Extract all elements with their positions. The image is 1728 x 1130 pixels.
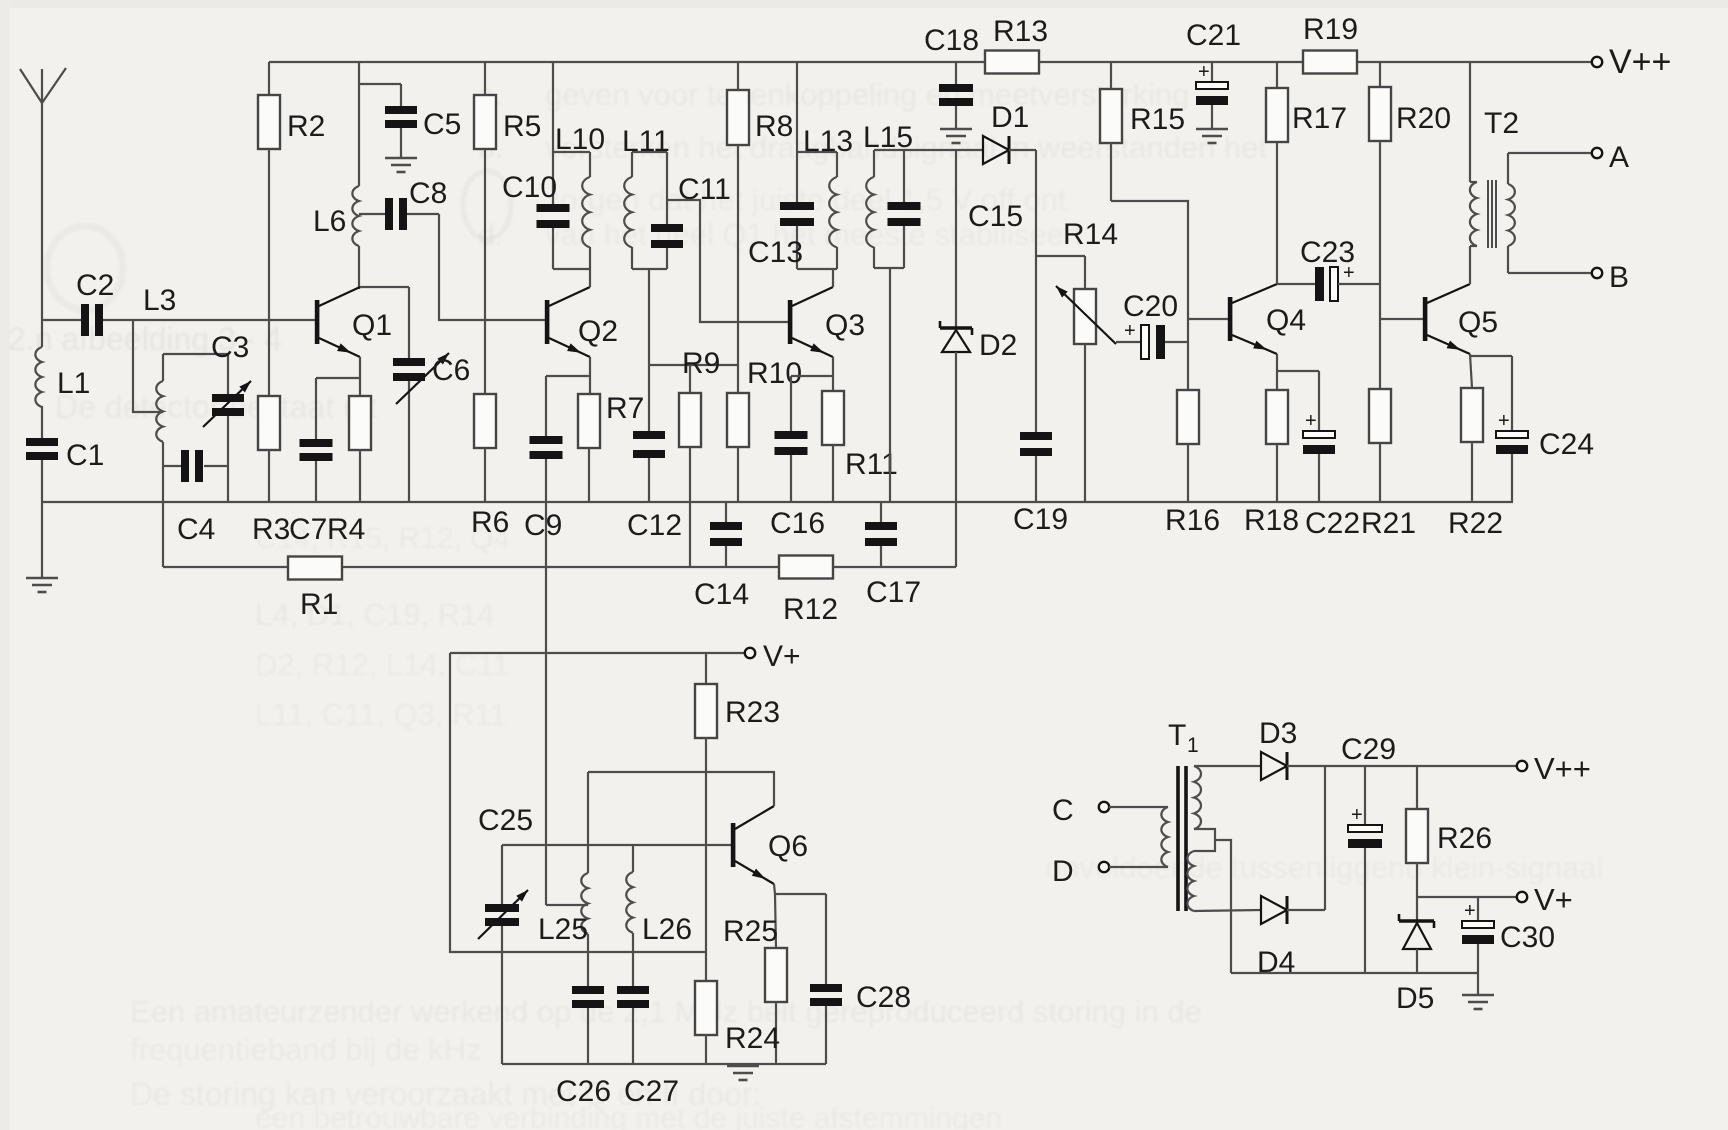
capacitor C14 xyxy=(694,502,749,611)
wire C11 tap to Q3 base xyxy=(667,200,789,322)
resistor R20 xyxy=(1369,62,1451,281)
transistor Q3 xyxy=(788,287,865,357)
transistor Q4 xyxy=(1228,284,1306,354)
wire V+ line xyxy=(450,652,745,654)
capacitor C7 xyxy=(289,378,333,546)
capacitor C18 xyxy=(924,24,979,129)
ground antenna xyxy=(26,578,58,592)
capacitor C13 tank xyxy=(748,62,837,269)
capacitor C29 xyxy=(1341,733,1396,973)
svg-text:C28: C28 xyxy=(856,981,911,1014)
inductor L4 xyxy=(156,354,163,567)
svg-text:R10: R10 xyxy=(747,357,802,390)
svg-text:+: + xyxy=(1464,900,1476,922)
svg-text:D3: D3 xyxy=(1259,717,1297,750)
svg-text:R15: R15 xyxy=(1130,103,1185,136)
transformer T2 secondary xyxy=(1508,153,1515,273)
wire Q5 emitter node xyxy=(1470,354,1512,388)
svg-text:C14: C14 xyxy=(694,578,749,611)
ground C18 xyxy=(940,129,972,143)
svg-text:C22: C22 xyxy=(1305,507,1360,540)
svg-text:L25: L25 xyxy=(538,913,588,946)
node terminal C xyxy=(1052,794,1109,827)
inductor L10 xyxy=(555,123,605,269)
wire antenna to C2 xyxy=(42,319,81,321)
svg-text:L13: L13 xyxy=(803,125,853,158)
svg-text:D5: D5 xyxy=(1396,982,1434,1015)
capacitor C6 variable xyxy=(393,287,470,502)
svg-text:C30: C30 xyxy=(1500,921,1555,954)
svg-text:R14: R14 xyxy=(1063,218,1118,251)
wire L15 bottom drop xyxy=(889,268,891,502)
capacitor C8 xyxy=(359,177,447,230)
wire Q2 emitter node xyxy=(546,357,590,394)
svg-text:Q3: Q3 xyxy=(825,309,865,342)
wire Q2 collector xyxy=(589,269,591,287)
transformer T2 primary xyxy=(1470,62,1519,246)
capacitor C17 xyxy=(865,502,921,609)
svg-text:R22: R22 xyxy=(1448,507,1503,540)
svg-text:R16: R16 xyxy=(1165,504,1220,537)
svg-text:T: T xyxy=(1168,719,1186,752)
svg-text:L11, C11, Q3, R11: L11, C11, Q3, R11 xyxy=(255,697,507,732)
wire D4 return xyxy=(1287,766,1325,910)
transformer T1 secondary upper xyxy=(1194,766,1261,829)
capacitor C4 xyxy=(163,450,228,546)
wire Q1 emitter node xyxy=(316,357,360,396)
svg-text:R26: R26 xyxy=(1437,822,1492,855)
capacitor C10 tank xyxy=(502,62,590,269)
wire D1 anode net xyxy=(904,149,983,151)
wire C lead xyxy=(1109,806,1168,808)
resistor R5 xyxy=(474,62,541,394)
ground C21 xyxy=(1196,129,1228,143)
capacitor C24 xyxy=(1496,356,1594,502)
svg-text:R3: R3 xyxy=(252,513,290,546)
wire T2 to A xyxy=(1508,152,1591,154)
wire T1 center tap xyxy=(1194,829,1231,973)
capacitor C11 xyxy=(651,152,731,269)
wire Q4 collector net xyxy=(1277,283,1315,285)
wire tap branch xyxy=(133,320,163,412)
capacitor C15 xyxy=(888,150,1024,268)
capacitor C1 xyxy=(26,438,104,578)
svg-text:R20: R20 xyxy=(1396,102,1451,135)
svg-text:R21: R21 xyxy=(1361,507,1416,540)
svg-text:R9: R9 xyxy=(682,347,720,380)
resistor R17 xyxy=(1266,62,1347,284)
inductor L1 xyxy=(35,320,42,438)
zener diode D2 xyxy=(940,150,1017,567)
node L1 label xyxy=(57,367,90,400)
wire L4 top to C3 xyxy=(163,353,228,355)
svg-text:R23: R23 xyxy=(725,696,780,729)
svg-text:L3: L3 xyxy=(143,284,176,317)
svg-text:R19: R19 xyxy=(1303,13,1358,46)
diode D3 xyxy=(1259,717,1297,780)
svg-text:C2: C2 xyxy=(76,269,114,302)
svg-text:C10: C10 xyxy=(502,171,557,204)
svg-text:Q1: Q1 xyxy=(352,309,392,342)
wire R14 top net xyxy=(1036,256,1085,289)
capacitor C28 xyxy=(810,894,911,1064)
resistor R2 xyxy=(258,62,325,396)
transistor Q1 xyxy=(315,287,392,357)
inductor L25 xyxy=(538,873,588,986)
svg-text:C1: C1 xyxy=(66,439,104,472)
inductor L15 xyxy=(863,121,913,268)
resistor R21 xyxy=(1361,389,1416,540)
svg-text:R5: R5 xyxy=(503,110,541,143)
wire tank bottom node xyxy=(649,269,738,431)
svg-text:C6: C6 xyxy=(432,354,470,387)
ground C30 xyxy=(1462,995,1494,1009)
capacitor C3 variable xyxy=(203,331,251,502)
svg-text:geven voor tegenkoppeling en m: geven voor tegenkoppeling en meetverster… xyxy=(545,77,1190,112)
wire R20 to Q5 base xyxy=(1380,281,1423,389)
svg-text:R17: R17 xyxy=(1292,102,1347,135)
svg-text:L26: L26 xyxy=(642,913,692,946)
wire Q6 emitter node xyxy=(774,884,826,948)
resistor R3 xyxy=(252,396,290,546)
wire Q5 collector to T2 xyxy=(1469,246,1471,284)
svg-text:R7: R7 xyxy=(606,392,644,425)
wire T2 to B xyxy=(1508,272,1591,274)
wire Q3 emitter node xyxy=(791,357,833,391)
svg-text:D1: D1 xyxy=(991,101,1029,134)
resistor R23 xyxy=(695,653,780,981)
wire R15 to base node xyxy=(1111,201,1188,390)
resistor R7 xyxy=(578,392,644,502)
capacitor C23 xyxy=(1300,236,1380,301)
resistor R12 xyxy=(779,556,838,627)
wire bottom ground rail xyxy=(42,501,1513,503)
svg-text:Een amateurzender werkend op d: Een amateurzender werkend op de 2,1 MHz … xyxy=(130,994,1202,1029)
svg-text:Q2: Q2 xyxy=(578,315,618,348)
transformer T1 primary xyxy=(1161,719,1198,867)
svg-text:D: D xyxy=(1052,855,1074,888)
zener diode D5 xyxy=(1396,914,1434,1015)
resistor R18 xyxy=(1244,390,1299,537)
capacitor C27 xyxy=(617,986,679,1108)
capacitor C30 xyxy=(1462,897,1555,995)
inductor L6 xyxy=(313,186,359,289)
svg-text:V++: V++ xyxy=(1534,751,1591,786)
resistor R19 xyxy=(1303,13,1358,74)
svg-text:L6: L6 xyxy=(313,205,346,238)
capacitor C12 xyxy=(627,431,682,542)
svg-text:Q5: Q5 xyxy=(1458,306,1498,339)
svg-text:L1: L1 xyxy=(57,367,90,400)
svg-text:+: + xyxy=(1198,61,1210,83)
wire Q1 collector xyxy=(360,286,409,288)
resistor R8 xyxy=(727,62,793,393)
inductor L26 xyxy=(626,845,692,986)
capacitor C19 xyxy=(1013,432,1068,536)
svg-text:C19: C19 xyxy=(1013,503,1068,536)
resistor R15 xyxy=(1100,62,1185,201)
svg-text:R8: R8 xyxy=(755,110,793,143)
svg-text:C9: C9 xyxy=(524,509,562,542)
resistor R1 xyxy=(288,557,342,622)
svg-text:V++: V++ xyxy=(1609,43,1671,81)
svg-text:Q6: Q6 xyxy=(768,830,808,863)
transistor Q6 xyxy=(731,806,808,884)
capacitor C22 xyxy=(1303,371,1360,540)
svg-text:frequentieband bij de kHz: frequentieband bij de kHz xyxy=(130,1032,482,1067)
wire L3 net xyxy=(103,284,315,320)
svg-text:C4: C4 xyxy=(177,513,215,546)
resistor R10 xyxy=(727,357,802,502)
resistor R14 variable xyxy=(1056,218,1118,502)
resistor R4 xyxy=(327,396,371,546)
capacitor C25 variable xyxy=(478,804,533,1064)
inductor L11 xyxy=(622,125,670,269)
svg-text:R25: R25 xyxy=(723,915,778,948)
svg-text:C27: C27 xyxy=(624,1075,679,1108)
svg-text:C16: C16 xyxy=(770,507,825,540)
node V+ terminal right xyxy=(1517,882,1573,917)
svg-text:V+: V+ xyxy=(763,640,801,673)
wire Q4 base xyxy=(1188,318,1228,320)
svg-text:1: 1 xyxy=(1187,734,1199,757)
node terminal D xyxy=(1052,855,1109,888)
wire Q6 collector loop xyxy=(588,772,774,873)
wire Q6 collector xyxy=(774,772,775,806)
svg-text:C12: C12 xyxy=(627,509,682,542)
wire Q3 collector xyxy=(832,269,834,287)
resistor R25 xyxy=(723,915,787,1064)
resistor R9 xyxy=(679,347,720,567)
wire L6 feed xyxy=(359,62,401,186)
svg-text:B: B xyxy=(1609,261,1629,294)
diode D1 xyxy=(983,101,1029,164)
inductor L13 xyxy=(803,125,853,269)
transistor Q2 xyxy=(545,287,618,357)
svg-text:R2: R2 xyxy=(287,110,325,143)
wire power supply bus xyxy=(1231,972,1478,974)
resistor R22 xyxy=(1448,388,1503,540)
svg-text:R13: R13 xyxy=(993,15,1048,48)
svg-text:C: C xyxy=(1052,794,1074,827)
svg-text:L10: L10 xyxy=(555,123,605,156)
ground oscillator xyxy=(727,1064,759,1080)
svg-text:C18: C18 xyxy=(924,24,979,57)
svg-text:R1: R1 xyxy=(300,588,338,621)
capacitor C20 xyxy=(1116,290,1188,359)
svg-text:R6: R6 xyxy=(471,506,509,539)
svg-text:Q4: Q4 xyxy=(1266,304,1306,337)
transformer T1 secondary lower xyxy=(1187,851,1261,911)
wire C8 to Q2 base xyxy=(439,214,545,320)
svg-text:D2: D2 xyxy=(979,329,1017,362)
wire D1 cathode net xyxy=(1009,150,1036,432)
capacitor C5 xyxy=(385,84,461,158)
node V++ terminal top right xyxy=(1592,43,1672,81)
svg-text:C5: C5 xyxy=(423,108,461,141)
node terminal A xyxy=(1592,141,1629,174)
resistor R11 xyxy=(822,391,898,502)
wire V++ supply line xyxy=(1287,765,1516,767)
svg-text:C29: C29 xyxy=(1341,733,1396,766)
capacitor C9 xyxy=(524,376,563,542)
diode D4 xyxy=(1257,896,1295,979)
svg-text:C15: C15 xyxy=(968,200,1023,233)
node V++ terminal right xyxy=(1517,751,1591,786)
resistor R26 xyxy=(1406,766,1492,921)
capacitor C16 xyxy=(770,376,825,540)
svg-text:R4: R4 xyxy=(327,513,365,546)
resistor R16 xyxy=(1165,390,1220,537)
svg-text:C8: C8 xyxy=(409,177,447,210)
resistor R13 xyxy=(985,15,1048,74)
svg-text:C17: C17 xyxy=(866,576,921,609)
capacitor C2 xyxy=(76,269,114,336)
svg-text:C7: C7 xyxy=(289,513,327,546)
transistor Q5 xyxy=(1423,284,1498,354)
svg-text:C20: C20 xyxy=(1123,290,1178,323)
svg-text:C25: C25 xyxy=(478,804,533,837)
antenna xyxy=(20,68,66,320)
wire oscillator injection line xyxy=(546,502,588,905)
wire V+ left loop xyxy=(450,653,706,952)
transformer T2 core xyxy=(1488,180,1496,248)
svg-text:+: + xyxy=(1498,410,1510,432)
wire oscillator ground rail xyxy=(502,1063,826,1065)
capacitor C26 xyxy=(556,986,611,1108)
svg-text:C3: C3 xyxy=(211,331,249,364)
ground C5 xyxy=(385,158,417,172)
resistor R6 xyxy=(471,394,509,539)
svg-text:+: + xyxy=(1124,320,1136,342)
svg-text:C24: C24 xyxy=(1539,428,1594,461)
node terminal B xyxy=(1592,261,1629,294)
wire V+ supply line xyxy=(1417,896,1516,898)
wire D lead xyxy=(1109,866,1168,868)
capacitor C21 xyxy=(1186,19,1241,129)
svg-text:C23: C23 xyxy=(1300,236,1355,269)
svg-text:C21: C21 xyxy=(1186,19,1241,52)
svg-text:A: A xyxy=(1609,141,1629,174)
wire lower return bus xyxy=(163,566,956,568)
svg-text:R24: R24 xyxy=(725,1022,780,1055)
svg-text:R18: R18 xyxy=(1244,504,1299,537)
svg-text:L4, D1, C19, R14: L4, D1, C19, R14 xyxy=(255,597,495,632)
svg-text:R12: R12 xyxy=(783,593,838,626)
transformer T1 core xyxy=(1178,766,1186,911)
svg-text:V+: V+ xyxy=(1534,882,1573,917)
resistor R24 xyxy=(695,981,780,1064)
node V+ terminal xyxy=(745,640,801,673)
svg-text:C26: C26 xyxy=(556,1075,611,1108)
wire Q6 base net xyxy=(502,844,732,846)
svg-text:+: + xyxy=(1351,804,1363,826)
svg-text:C13: C13 xyxy=(748,236,803,269)
wire Q4 emitter node xyxy=(1277,354,1319,390)
svg-text:T2: T2 xyxy=(1484,107,1519,140)
wire top V++ rail xyxy=(269,61,1591,63)
svg-text:L11: L11 xyxy=(622,125,670,158)
svg-text:+: + xyxy=(1305,410,1317,432)
